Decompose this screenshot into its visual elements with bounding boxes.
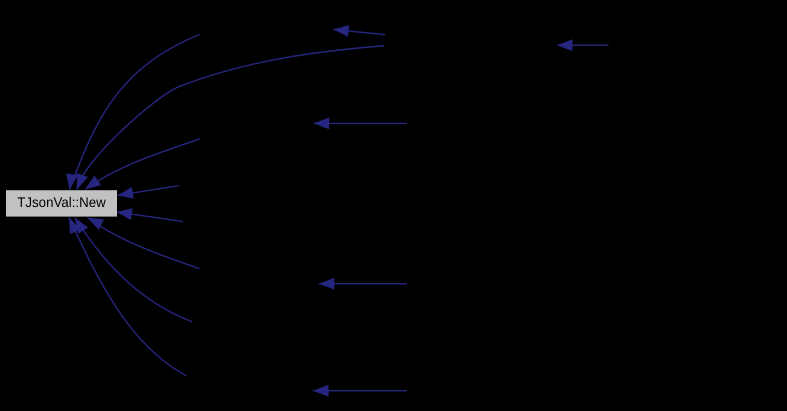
svg-text:TJsonVal::New: TJsonVal::New bbox=[17, 194, 106, 210]
